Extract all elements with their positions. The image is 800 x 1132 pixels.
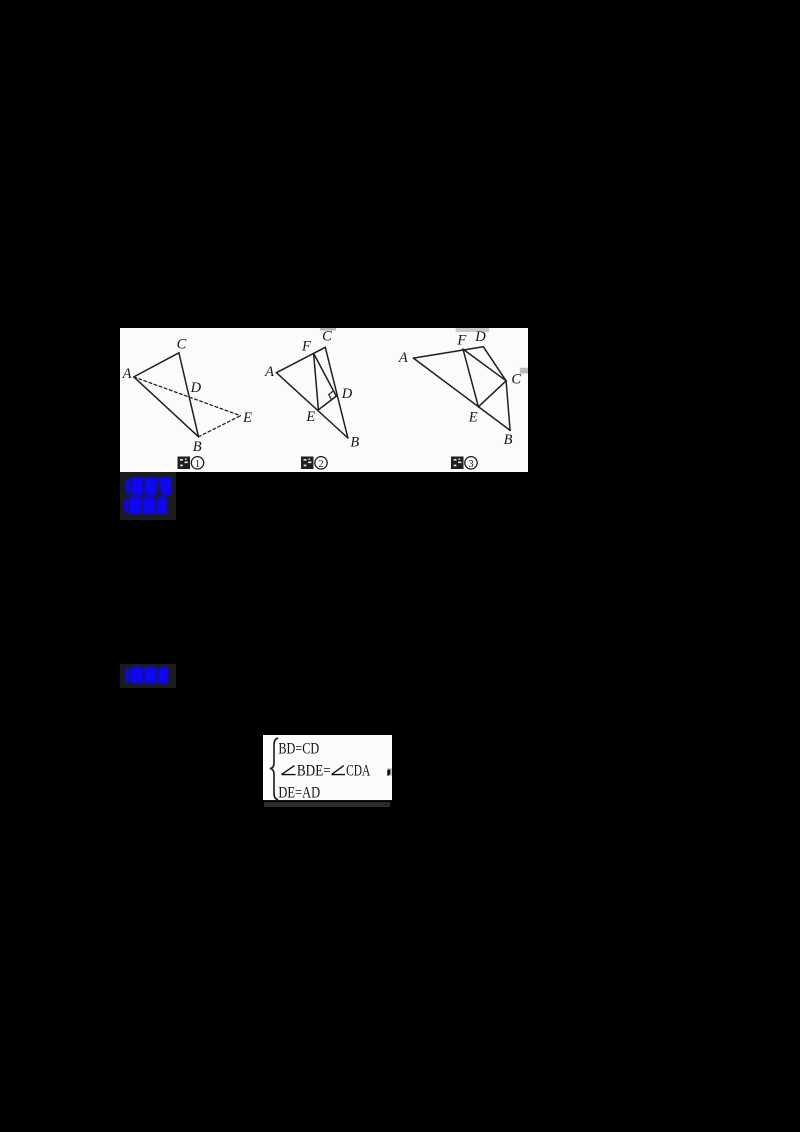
caption 图③ glyph tu <box>451 457 464 470</box>
dark highlight patch with blue tag 解答 <box>120 664 176 688</box>
svg-text:F: F <box>456 332 466 348</box>
svg-text:CDA: CDA <box>346 763 371 780</box>
angle symbol before CDA <box>332 766 346 775</box>
svg-text:BDE=: BDE= <box>297 763 331 780</box>
svg-text:E: E <box>468 409 478 425</box>
figure 2 side CB through D <box>325 347 348 438</box>
figure 2 segment FD <box>314 353 337 396</box>
svg-text:2: 2 <box>318 459 323 470</box>
svg-text:3: 3 <box>468 459 473 470</box>
drop shadow strip under equation panel <box>264 802 390 808</box>
caption 图② glyph tu <box>301 457 314 470</box>
caption ③ circled three <box>465 457 477 470</box>
figure 3 segment EC <box>478 381 506 407</box>
svg-text:C: C <box>177 336 187 352</box>
figure 2 side AB through E <box>276 373 348 438</box>
figure 3 segment CB <box>506 381 510 431</box>
scan smudge right of C of figure 3 <box>520 368 528 374</box>
caption ① circled one <box>191 457 203 470</box>
white equation panel <box>263 735 392 801</box>
svg-text:D: D <box>190 380 202 396</box>
svg-text:D: D <box>341 386 353 402</box>
figure 2 triangle side AC through F <box>276 347 325 372</box>
svg-text:DE=AD: DE=AD <box>278 785 320 801</box>
figure 2 segment FE <box>314 353 319 409</box>
svg-text:B: B <box>504 432 513 448</box>
figure 3 side AB through E <box>413 358 510 430</box>
figure 3 segment FE <box>463 349 478 407</box>
caption 图① glyph tu <box>178 457 191 470</box>
blue tag row 2 <box>124 497 167 515</box>
figure 2 segment ED <box>318 396 336 410</box>
scan smudge above C of figure 2 <box>320 328 336 331</box>
svg-text:1: 1 <box>195 459 200 470</box>
grey highlight caret with comma <box>387 769 391 776</box>
svg-text:B: B <box>193 439 202 455</box>
figure 1 dashed segment BE <box>199 416 241 437</box>
figure 1 side AB <box>134 377 199 437</box>
svg-text:B: B <box>350 434 359 450</box>
figure 3 top side AD through F <box>413 347 483 358</box>
svg-text:A: A <box>122 366 132 382</box>
figure 1 side CB through D <box>179 353 199 437</box>
blue tag row <box>125 667 168 684</box>
angle symbol before BDE <box>282 766 296 775</box>
svg-text:D: D <box>474 329 486 345</box>
svg-text:C: C <box>511 371 521 387</box>
system brace { <box>270 738 278 799</box>
figure 2 right-angle mark at D <box>329 391 334 400</box>
svg-text:E: E <box>305 409 315 425</box>
svg-text:A: A <box>264 364 274 380</box>
svg-text:E: E <box>242 410 252 426</box>
figure 3 segment FC <box>463 349 506 381</box>
blue tag row 1 <box>126 477 172 495</box>
figure 1 dashed median AE through D <box>134 377 241 416</box>
figure 1 triangle ABC: side AC <box>134 353 179 377</box>
dark highlight patch with blue tags 考点/分析 <box>120 472 176 520</box>
svg-text:BD=CD: BD=CD <box>278 740 319 757</box>
white panel with three geometry figures <box>120 328 528 472</box>
figure 3 segment DC <box>483 347 506 381</box>
scan smudge above F D of figure 3 <box>456 328 489 332</box>
caption ② circled two <box>315 457 327 470</box>
svg-text:F: F <box>301 339 311 355</box>
svg-text:C: C <box>322 328 332 344</box>
svg-text:A: A <box>398 350 408 366</box>
